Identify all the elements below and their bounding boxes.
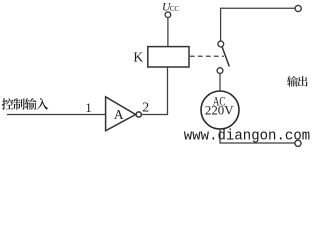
svg-text:A: A <box>114 107 124 122</box>
svg-text:2: 2 <box>142 99 149 114</box>
svg-text:220V: 220V <box>205 104 234 118</box>
svg-text:K: K <box>133 50 143 65</box>
svg-text:www.diangon.com: www.diangon.com <box>184 129 310 145</box>
svg-text:1: 1 <box>85 100 92 115</box>
svg-text:CC: CC <box>170 5 180 13</box>
